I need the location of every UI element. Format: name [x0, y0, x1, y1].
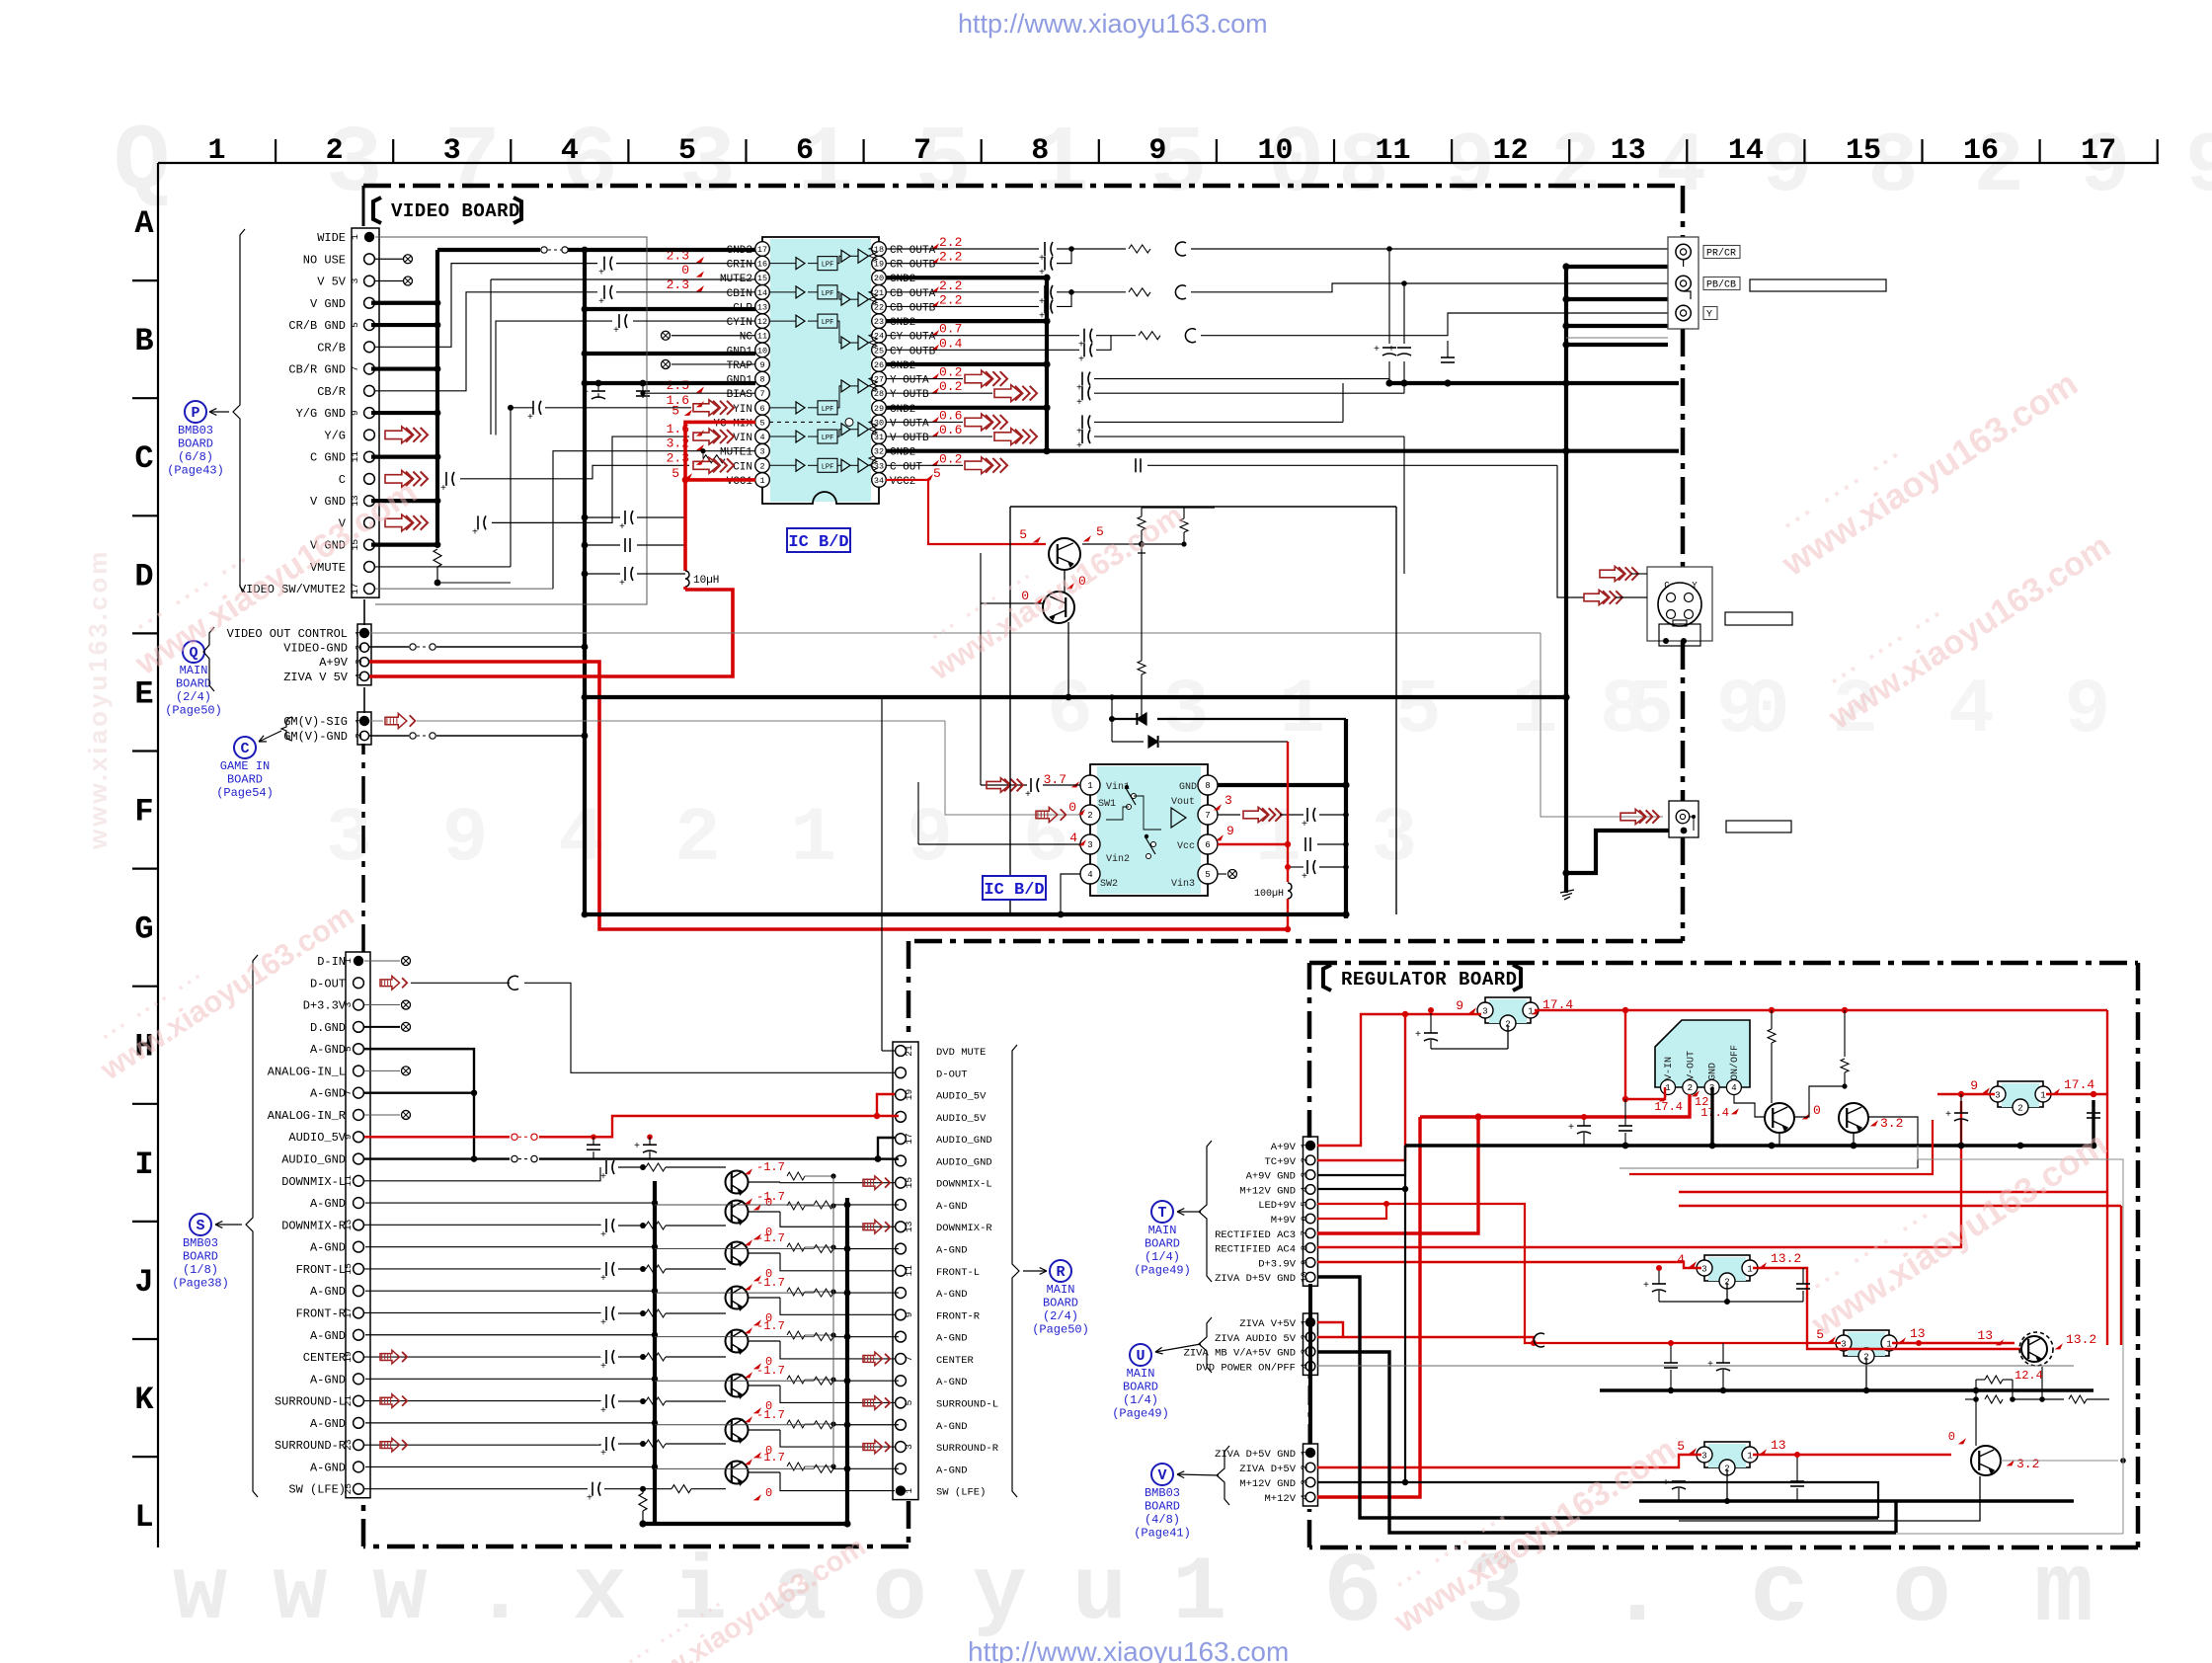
svg-text:AUDIO_5V: AUDIO_5V — [936, 1113, 987, 1125]
svg-text:SURROUND-R: SURROUND-R — [936, 1443, 999, 1455]
svg-text:PR/CR: PR/CR — [1706, 248, 1736, 260]
svg-text:+: + — [1388, 345, 1394, 356]
svg-text:+: + — [619, 522, 625, 533]
svg-text:+: + — [1076, 441, 1082, 452]
svg-text:5: 5 — [1096, 524, 1104, 539]
svg-text:BOARD: BOARD — [227, 773, 263, 787]
svg-text:-1.7: -1.7 — [756, 1190, 785, 1204]
svg-text:14: 14 — [757, 288, 767, 298]
svg-text:1: 1 — [1528, 1007, 1533, 1017]
svg-text:BMB03: BMB03 — [183, 1236, 218, 1250]
svg-text:AUDIO_5V: AUDIO_5V — [288, 1131, 346, 1145]
svg-text:28: 28 — [874, 389, 884, 399]
svg-text:25: 25 — [343, 1483, 354, 1495]
svg-text:3: 3 — [1701, 1265, 1706, 1275]
svg-text:GM(V)-SIG: GM(V)-SIG — [283, 715, 348, 729]
svg-text:D+3.3V: D+3.3V — [303, 999, 347, 1013]
svg-text:Y OUTA: Y OUTA — [890, 375, 929, 387]
svg-text:A: A — [134, 205, 154, 242]
svg-text:3: 3 — [904, 1444, 914, 1450]
svg-text:7: 7 — [904, 1356, 914, 1362]
svg-text:MAIN: MAIN — [1047, 1283, 1075, 1297]
svg-text:15: 15 — [757, 274, 767, 283]
svg-text:100µH: 100µH — [1254, 889, 1284, 900]
svg-text:ZIVA MB V/A+5V GND: ZIVA MB V/A+5V GND — [1184, 1348, 1296, 1360]
svg-text:14: 14 — [1728, 134, 1764, 168]
svg-text:+: + — [1663, 1478, 1669, 1489]
svg-text:13: 13 — [1910, 1326, 1926, 1341]
svg-text:L: L — [134, 1499, 153, 1536]
svg-text:DOWNMIX-R: DOWNMIX-R — [281, 1219, 346, 1232]
svg-text:D: D — [134, 558, 153, 594]
svg-text:ZIVA AUDIO 5V: ZIVA AUDIO 5V — [1215, 1333, 1297, 1345]
svg-text:9: 9 — [759, 360, 764, 370]
svg-text:http://www.xiaoyu163.com: http://www.xiaoyu163.com — [958, 9, 1268, 39]
svg-text:1: 1 — [1087, 781, 1092, 791]
svg-text:5: 5 — [678, 134, 696, 168]
svg-text:17: 17 — [2081, 134, 2116, 168]
svg-text:8: 8 — [1031, 134, 1049, 168]
svg-text:32: 32 — [874, 447, 884, 457]
svg-text:ANALOG-IN_L: ANALOG-IN_L — [268, 1065, 346, 1078]
svg-text:+: + — [600, 1318, 606, 1329]
svg-text:DVD MUTE: DVD MUTE — [936, 1047, 986, 1059]
svg-text:1: 1 — [1300, 1450, 1310, 1456]
svg-text:MAIN: MAIN — [180, 664, 208, 677]
svg-text:15: 15 — [1846, 134, 1881, 168]
svg-text:5: 5 — [343, 1046, 354, 1052]
svg-text:C: C — [339, 473, 346, 487]
svg-text:5: 5 — [904, 1399, 914, 1405]
svg-text:5: 5 — [1677, 1439, 1685, 1454]
svg-text:21: 21 — [904, 1045, 914, 1057]
svg-text:FRONT-R: FRONT-R — [296, 1307, 346, 1320]
svg-text:3: 3 — [1300, 1348, 1310, 1354]
svg-text:SW (LFE): SW (LFE) — [288, 1483, 346, 1497]
svg-text:13.2: 13.2 — [2066, 1332, 2096, 1347]
svg-text:3: 3 — [1482, 1007, 1487, 1017]
svg-text:Vout: Vout — [1171, 797, 1195, 808]
svg-text:2: 2 — [354, 733, 364, 739]
svg-text:LPF: LPF — [822, 319, 834, 327]
svg-text:IC B/D: IC B/D — [788, 533, 848, 552]
svg-text:5: 5 — [759, 418, 764, 428]
svg-text:9: 9 — [1970, 1078, 1978, 1093]
svg-text:A-GND: A-GND — [310, 1461, 346, 1474]
svg-text:NC: NC — [740, 332, 753, 344]
svg-text:2: 2 — [1300, 1465, 1310, 1470]
svg-text:3: 3 — [759, 447, 764, 457]
svg-text:+: + — [527, 413, 533, 424]
svg-text:23: 23 — [874, 317, 884, 327]
svg-text:11: 11 — [350, 451, 360, 463]
svg-text:CB/R GND: CB/R GND — [288, 363, 346, 377]
svg-text:A-GND: A-GND — [936, 1377, 968, 1388]
svg-text:-1.7: -1.7 — [756, 1319, 785, 1333]
svg-text:+: + — [1039, 311, 1045, 322]
svg-text:+: + — [1302, 872, 1307, 883]
svg-text:(Page38): (Page38) — [172, 1277, 229, 1291]
svg-text:D-IN: D-IN — [317, 955, 346, 969]
svg-text:4: 4 — [354, 673, 364, 679]
svg-text:S: S — [196, 1218, 204, 1234]
svg-text:TC+9V: TC+9V — [1264, 1156, 1296, 1168]
svg-text:8: 8 — [1205, 781, 1210, 791]
svg-text:A-GND: A-GND — [310, 1087, 346, 1101]
svg-text:2.2: 2.2 — [939, 292, 962, 307]
svg-text:+: + — [1302, 820, 1307, 831]
svg-text:V OUTB: V OUTB — [890, 433, 929, 444]
svg-text:CR OUTA: CR OUTA — [890, 245, 936, 257]
svg-text:+: + — [1415, 1030, 1421, 1041]
svg-text:0.6: 0.6 — [939, 408, 962, 423]
svg-text:ON/OFF: ON/OFF — [1729, 1045, 1741, 1080]
svg-text:11: 11 — [1376, 134, 1411, 168]
svg-text:Vcc: Vcc — [1177, 841, 1195, 852]
svg-text:5: 5 — [1019, 527, 1027, 542]
svg-text:10µH: 10µH — [693, 575, 719, 587]
svg-text:4: 4 — [1300, 1494, 1310, 1500]
svg-text:C GND: C GND — [310, 451, 346, 465]
svg-text:5: 5 — [350, 322, 360, 328]
svg-text:4: 4 — [1300, 1363, 1310, 1369]
svg-text:+: + — [600, 1362, 606, 1373]
svg-text:6: 6 — [796, 134, 814, 168]
svg-text:11: 11 — [343, 1175, 354, 1187]
svg-text:CBIN: CBIN — [727, 288, 752, 300]
svg-text:1: 1 — [350, 234, 360, 240]
svg-text:3: 3 — [1087, 840, 1092, 850]
svg-text:1: 1 — [1747, 1265, 1752, 1275]
svg-text:12: 12 — [1493, 134, 1529, 168]
svg-text:1: 1 — [1300, 1143, 1310, 1148]
svg-text:2.2: 2.2 — [939, 235, 962, 250]
svg-text:13: 13 — [757, 302, 767, 312]
svg-text:-1.7: -1.7 — [756, 1231, 785, 1245]
svg-text:ANALOG-IN_R: ANALOG-IN_R — [268, 1109, 346, 1123]
svg-text:ZIVA D+5V GND: ZIVA D+5V GND — [1215, 1449, 1296, 1461]
svg-text:(6/8): (6/8) — [178, 450, 213, 464]
svg-text:Y OUTB: Y OUTB — [890, 389, 929, 401]
svg-text:10: 10 — [1257, 134, 1293, 168]
svg-text:A-GND: A-GND — [936, 1289, 968, 1301]
svg-text:(1/8): (1/8) — [183, 1263, 218, 1277]
svg-text:BOARD: BOARD — [1123, 1381, 1158, 1394]
svg-text:V GND: V GND — [310, 495, 346, 509]
svg-text:MUTE1: MUTE1 — [720, 447, 752, 459]
svg-text:+: + — [1078, 355, 1084, 365]
svg-text:0: 0 — [1813, 1103, 1821, 1118]
svg-text:0.4: 0.4 — [939, 336, 963, 351]
svg-text:WIDE: WIDE — [317, 231, 346, 245]
svg-text:CY OUTA: CY OUTA — [890, 332, 936, 344]
svg-text:3: 3 — [354, 659, 364, 665]
svg-text:1: 1 — [343, 958, 354, 964]
svg-text:CB OUTA: CB OUTA — [890, 288, 936, 300]
svg-text:9: 9 — [350, 410, 360, 416]
svg-text:+: + — [1643, 1281, 1649, 1292]
svg-text:16: 16 — [1963, 134, 1999, 168]
svg-text:6: 6 — [1300, 1216, 1310, 1222]
svg-text:C OUT: C OUT — [890, 461, 922, 473]
svg-text:RECTIFIED AC4: RECTIFIED AC4 — [1215, 1244, 1296, 1256]
svg-text:+: + — [1039, 269, 1045, 279]
svg-text:A-GND: A-GND — [936, 1245, 968, 1257]
svg-text:+: + — [1025, 790, 1031, 801]
svg-text:5: 5 — [1205, 870, 1210, 880]
svg-text:A-GND: A-GND — [936, 1333, 968, 1345]
svg-text:C: C — [134, 440, 153, 477]
svg-text:Vin3: Vin3 — [1171, 878, 1195, 890]
svg-text:AUDIO_5V: AUDIO_5V — [936, 1091, 987, 1103]
svg-text:13: 13 — [1771, 1438, 1786, 1453]
svg-text:V OUTA: V OUTA — [890, 418, 929, 430]
svg-text:3: 3 — [350, 277, 360, 283]
svg-text:U: U — [1136, 1348, 1145, 1365]
svg-text:A-GND: A-GND — [310, 1043, 346, 1057]
svg-text:D-OUT: D-OUT — [310, 977, 346, 990]
svg-text:Vin2: Vin2 — [1106, 853, 1130, 865]
svg-text:2: 2 — [1300, 1157, 1310, 1163]
svg-text:BOARD: BOARD — [183, 1250, 218, 1264]
svg-text:4: 4 — [1087, 870, 1092, 880]
svg-text:31: 31 — [874, 433, 884, 442]
svg-text:BOARD: BOARD — [176, 677, 211, 691]
svg-text:CRIN: CRIN — [727, 260, 752, 272]
svg-text:SURROUND-L: SURROUND-L — [275, 1395, 346, 1409]
svg-text:8: 8 — [759, 375, 764, 385]
svg-text:0.2: 0.2 — [939, 365, 962, 380]
svg-text:3: 3 — [1995, 1091, 2000, 1101]
svg-text:15: 15 — [343, 1263, 354, 1275]
svg-text:1: 1 — [2040, 1091, 2045, 1101]
svg-text:FRONT-L: FRONT-L — [296, 1263, 346, 1277]
svg-text:VCC1: VCC1 — [727, 476, 753, 488]
svg-text:J: J — [134, 1264, 153, 1301]
svg-text:1: 1 — [354, 718, 364, 724]
svg-text:2: 2 — [759, 461, 764, 471]
svg-text:5: 5 — [671, 466, 679, 481]
svg-text:+: + — [634, 1142, 640, 1152]
svg-text:9: 9 — [904, 1311, 914, 1317]
svg-text:F: F — [134, 794, 153, 831]
svg-text:VIN: VIN — [733, 433, 752, 444]
svg-text:IC B/D: IC B/D — [984, 881, 1044, 900]
svg-text:D.GND: D.GND — [310, 1021, 346, 1035]
svg-text:B: B — [134, 323, 153, 359]
svg-text:http://www.xiaoyu163.com: http://www.xiaoyu163.com — [968, 1636, 1289, 1663]
svg-text:9: 9 — [1300, 1259, 1310, 1265]
svg-text:-1.7: -1.7 — [756, 1451, 785, 1465]
svg-text:(Page50): (Page50) — [165, 704, 222, 718]
svg-text:RECTIFIED AC3: RECTIFIED AC3 — [1215, 1229, 1296, 1241]
svg-text:A-GND: A-GND — [310, 1417, 346, 1431]
svg-text:0.2: 0.2 — [939, 379, 962, 394]
svg-text:(1/4): (1/4) — [1145, 1250, 1180, 1264]
svg-text:Y: Y — [1706, 310, 1712, 321]
svg-text:ZIVA D+5V GND: ZIVA D+5V GND — [1215, 1273, 1296, 1285]
svg-text:5: 5 — [1300, 1201, 1310, 1207]
svg-text:3: 3 — [443, 134, 461, 168]
svg-text:SW (LFE): SW (LFE) — [936, 1487, 986, 1499]
svg-text:TRAP: TRAP — [727, 360, 753, 372]
svg-text:V 5V: V 5V — [317, 276, 347, 289]
svg-text:AUDIO_GND: AUDIO_GND — [281, 1153, 346, 1167]
svg-text:BIAS: BIAS — [727, 389, 753, 401]
svg-text:ZIVA V+5V: ZIVA V+5V — [1239, 1318, 1296, 1330]
svg-text:M+12V GND: M+12V GND — [1239, 1185, 1296, 1197]
svg-text:3: 3 — [1224, 793, 1232, 808]
svg-text:FRONT-R: FRONT-R — [936, 1310, 981, 1322]
svg-text:SURROUND-L: SURROUND-L — [936, 1398, 998, 1410]
svg-text:+: + — [598, 269, 604, 279]
svg-text:+: + — [598, 297, 604, 308]
svg-text:+: + — [587, 1494, 592, 1505]
svg-text:2: 2 — [326, 134, 344, 168]
svg-text:CR/B: CR/B — [317, 341, 346, 355]
svg-text:1: 1 — [759, 476, 764, 486]
svg-text:3: 3 — [1300, 1479, 1310, 1485]
svg-text:13: 13 — [1611, 134, 1646, 168]
svg-text:+: + — [1076, 384, 1082, 395]
svg-text:ZIVA D+5V: ZIVA D+5V — [1239, 1464, 1296, 1475]
svg-text:I: I — [134, 1147, 153, 1183]
svg-text:BOARD: BOARD — [1145, 1237, 1180, 1251]
svg-text:VIDEO BOARD: VIDEO BOARD — [391, 200, 520, 222]
svg-text:CR OUTB: CR OUTB — [890, 260, 936, 272]
svg-text:1: 1 — [1300, 1319, 1310, 1325]
svg-text:V-IN: V-IN — [1664, 1057, 1675, 1080]
svg-text:+: + — [583, 388, 589, 399]
svg-text:11: 11 — [904, 1265, 914, 1277]
svg-text:12.4: 12.4 — [2014, 1369, 2043, 1383]
svg-text:4: 4 — [1300, 1186, 1310, 1192]
svg-text:DOWNMIX-R: DOWNMIX-R — [936, 1223, 992, 1234]
svg-text:4: 4 — [1731, 1083, 1736, 1093]
svg-text:BOARD: BOARD — [178, 437, 213, 451]
svg-text:17.4: 17.4 — [2064, 1077, 2094, 1092]
svg-text:Y/G: Y/G — [324, 429, 346, 442]
svg-text:2.2: 2.2 — [939, 250, 962, 265]
svg-text:Y: Y — [1692, 581, 1698, 591]
svg-text:FRONT-L: FRONT-L — [936, 1267, 980, 1279]
svg-text:26: 26 — [874, 360, 884, 370]
svg-text:2: 2 — [1300, 1334, 1310, 1340]
svg-text:M+12V GND: M+12V GND — [1239, 1478, 1296, 1490]
svg-text:(Page50): (Page50) — [1032, 1323, 1089, 1337]
svg-text:2: 2 — [354, 644, 364, 650]
svg-text:T: T — [1157, 1205, 1166, 1222]
svg-text:K: K — [134, 1382, 154, 1418]
svg-text:(2/4): (2/4) — [176, 690, 211, 704]
svg-text:D-OUT: D-OUT — [936, 1069, 968, 1080]
svg-text:0: 0 — [1068, 800, 1076, 815]
svg-text:4: 4 — [759, 433, 764, 442]
svg-text:AUDIO_GND: AUDIO_GND — [936, 1156, 992, 1168]
svg-text:7: 7 — [759, 389, 764, 399]
svg-text:GND: GND — [1179, 782, 1197, 793]
svg-text:+: + — [600, 1230, 606, 1241]
svg-text:17.4: 17.4 — [1654, 1100, 1683, 1114]
svg-text:5: 5 — [933, 466, 941, 481]
svg-text:DOWNMIX-L: DOWNMIX-L — [281, 1175, 346, 1189]
svg-text:+: + — [1039, 254, 1045, 265]
svg-text:LPF: LPF — [822, 290, 834, 298]
svg-text:GM(V)-GND: GM(V)-GND — [283, 730, 348, 744]
svg-text:16: 16 — [757, 260, 767, 270]
svg-text:A-GND: A-GND — [310, 1285, 346, 1299]
svg-text:SW2: SW2 — [1100, 879, 1118, 890]
svg-text:CB/R: CB/R — [317, 385, 346, 399]
svg-text:NO USE: NO USE — [303, 253, 346, 267]
svg-text:4: 4 — [561, 134, 579, 168]
svg-text:+: + — [600, 1274, 606, 1285]
svg-text:+: + — [440, 484, 446, 495]
svg-text:(Page43): (Page43) — [167, 464, 224, 478]
svg-text:A-GND: A-GND — [310, 1241, 346, 1255]
svg-text:13: 13 — [1977, 1328, 1993, 1343]
svg-text:0.7: 0.7 — [939, 322, 962, 337]
svg-text:+: + — [1374, 345, 1380, 356]
svg-text:REGULATOR BOARD: REGULATOR BOARD — [1341, 969, 1518, 990]
svg-text:C: C — [1664, 581, 1670, 591]
svg-text:BMB03: BMB03 — [1145, 1486, 1180, 1500]
svg-text:17: 17 — [757, 245, 767, 255]
svg-text:0.2: 0.2 — [939, 451, 962, 466]
svg-text:20: 20 — [874, 274, 884, 283]
svg-text:VIDEO-GND: VIDEO-GND — [283, 642, 348, 656]
svg-text:6: 6 — [759, 404, 764, 414]
svg-text:A-GND: A-GND — [310, 1373, 346, 1386]
svg-text:+: + — [1945, 1110, 1951, 1121]
svg-text:Y/G GND: Y/G GND — [296, 407, 346, 421]
svg-text:CIN: CIN — [733, 461, 752, 473]
svg-text:3.2: 3.2 — [1880, 1116, 1903, 1131]
svg-text:12: 12 — [1695, 1095, 1708, 1109]
svg-text:ZIVA V 5V: ZIVA V 5V — [283, 671, 349, 684]
svg-text:29: 29 — [874, 404, 884, 414]
svg-text:0: 0 — [681, 263, 689, 277]
svg-text:A-GND: A-GND — [310, 1197, 346, 1211]
svg-text:9: 9 — [1226, 824, 1234, 838]
svg-text:23: 23 — [343, 1439, 354, 1451]
svg-text:(Page49): (Page49) — [1112, 1407, 1169, 1421]
svg-text:17: 17 — [343, 1307, 354, 1318]
svg-text:1: 1 — [1747, 1452, 1752, 1462]
svg-text:A-GND: A-GND — [936, 1421, 968, 1433]
svg-text:(1/4): (1/4) — [1123, 1393, 1158, 1407]
svg-text:www.xiaoyu163.com: www.xiaoyu163.com — [83, 549, 113, 850]
svg-text:SW1: SW1 — [1098, 799, 1116, 810]
svg-text:M+9V: M+9V — [1271, 1215, 1297, 1227]
svg-text:17: 17 — [350, 583, 360, 594]
svg-text:-1.7: -1.7 — [756, 1408, 785, 1422]
svg-text:0.6: 0.6 — [939, 423, 962, 437]
svg-text:VCC2: VCC2 — [890, 476, 915, 488]
svg-text:-1.7: -1.7 — [756, 1364, 785, 1378]
svg-text:+: + — [600, 1449, 606, 1460]
svg-text:34: 34 — [874, 476, 884, 486]
svg-text:+: + — [619, 579, 625, 590]
svg-text:5: 5 — [671, 403, 679, 418]
svg-text:GND: GND — [1708, 1063, 1719, 1080]
svg-text:YC MIX: YC MIX — [713, 418, 752, 430]
svg-text:V-OUT: V-OUT — [1686, 1051, 1697, 1080]
svg-text:2.5: 2.5 — [667, 378, 689, 393]
svg-text:12: 12 — [757, 317, 767, 327]
svg-text:CYIN: CYIN — [727, 317, 752, 329]
svg-text:A+9V: A+9V — [1271, 1142, 1297, 1153]
